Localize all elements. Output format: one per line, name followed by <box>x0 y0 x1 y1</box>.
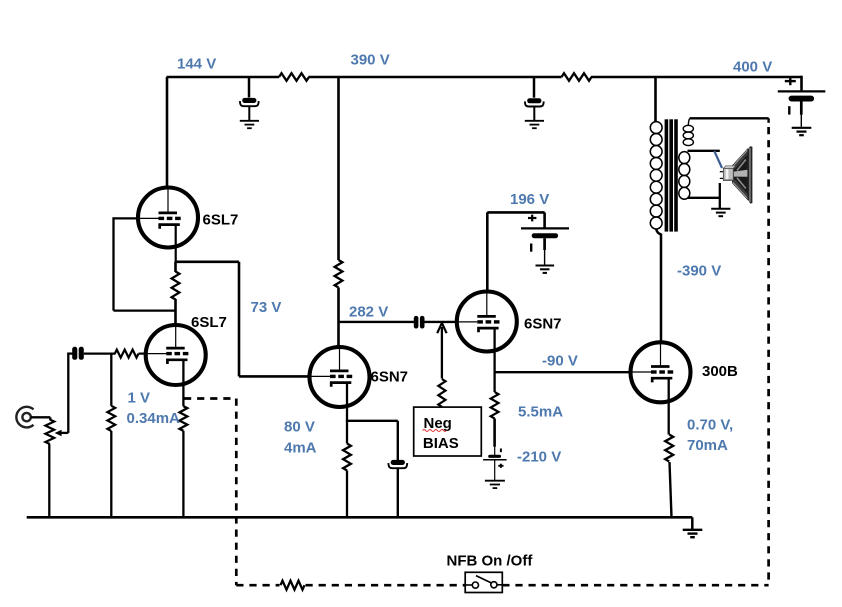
wire NFB takeoff to dashed loop <box>690 118 769 123</box>
svg-text:73 V: 73 V <box>251 299 282 316</box>
wire R6 leads <box>346 421 348 518</box>
wire V3 cathode down <box>346 383 348 421</box>
svg-text:390 V: 390 V <box>351 52 390 69</box>
resistor R10 300B cathode <box>665 435 673 462</box>
svg-text:5.5mA: 5.5mA <box>518 404 563 421</box>
wire V4 cathode down <box>493 328 495 373</box>
wire V2 cathode down <box>182 360 184 406</box>
wire R-plate to V3 top <box>337 288 340 348</box>
wire V1 cathode down <box>175 225 177 262</box>
svg-text:1 V: 1 V <box>128 390 151 407</box>
capacitor C1 <box>240 98 259 106</box>
OPT core laminations <box>665 119 678 231</box>
svg-text:-90 V: -90 V <box>542 353 578 370</box>
wire C3 right lead to junction <box>84 352 116 354</box>
wire secondary bottom lead <box>688 197 720 199</box>
battery B2 196V plus sign <box>528 215 536 222</box>
ground main <box>683 530 703 537</box>
wire top B+ rail segment 1 (144V) <box>167 76 280 79</box>
battery B3 -210V <box>483 447 507 480</box>
svg-text:4mA: 4mA <box>284 440 317 457</box>
wire cathode junction to bypass cap <box>346 421 398 460</box>
wire R5 to ground rail <box>110 431 112 517</box>
wire C5 to V4 grid <box>424 321 457 323</box>
OPT secondary upper (NFB) winding <box>683 118 693 145</box>
OPT secondary lower winding <box>679 152 690 200</box>
wire secondary top lead <box>688 150 720 152</box>
resistor rail R2 <box>562 73 592 81</box>
capacitor C2 <box>525 98 544 106</box>
svg-text:6SN7: 6SN7 <box>524 316 562 333</box>
wire C2 top lead <box>533 77 536 98</box>
ground below C1 <box>240 121 259 128</box>
wire 73V node down and right to V3 grid <box>239 262 310 377</box>
tube V5 300B <box>631 342 691 402</box>
resistor R8 V4 cathode <box>491 392 499 419</box>
wire wiper from coupling cap down <box>67 354 69 433</box>
ground below battery B2 <box>536 266 555 273</box>
resistor R4 grid stopper <box>115 350 139 358</box>
svg-text:80 V: 80 V <box>284 419 315 436</box>
wire speaker return to ground <box>719 183 721 208</box>
svg-text:70mA: 70mA <box>687 437 728 454</box>
wire C2 bottom lead <box>533 107 535 121</box>
svg-text:Neg: Neg <box>424 415 452 432</box>
wire rail end drop <box>691 517 694 529</box>
wire rail down to R-plate <box>337 77 340 260</box>
wire OPT primary bottom to 300B plate <box>656 229 661 343</box>
ground below battery B1 <box>792 128 812 135</box>
ground below speaker <box>711 209 730 216</box>
potentiometer (volume) <box>45 420 54 445</box>
wire cathode junction to 73V drop <box>176 260 240 263</box>
ground below C2 <box>525 121 544 128</box>
wire C3 left lead <box>67 352 72 354</box>
svg-text:-390 V: -390 V <box>677 263 721 280</box>
resistor R3 V1 cathode to V2 plate <box>172 272 180 300</box>
OPT primary winding <box>650 122 662 229</box>
wire 144V rail down to V1 plate <box>166 77 169 187</box>
bias injection arrow <box>437 323 446 379</box>
tube V4 6SN7 second <box>457 292 517 352</box>
wire R10 to ground rail <box>670 462 672 517</box>
battery B3 plus sign <box>498 464 503 468</box>
battery B1 400V <box>778 91 826 126</box>
spellcheck squiggle under Neg <box>423 430 447 432</box>
resistor R-bias feed <box>438 379 445 407</box>
dashed NFB right vertical <box>767 127 770 585</box>
svg-text:-210 V: -210 V <box>517 449 561 466</box>
resistor R7 V2 cathode <box>180 406 188 431</box>
wire jack to potentiometer <box>31 417 51 420</box>
wire R7 to ground rail <box>182 431 184 518</box>
resistor R-plate 6SN7 <box>335 260 343 288</box>
wire rail down to OPT primary <box>654 77 657 122</box>
svg-text:6SN7: 6SN7 <box>371 369 409 386</box>
wire V5 cathode down <box>668 378 670 434</box>
tube V3 6SN7 first <box>310 347 370 407</box>
wire R3 leads <box>174 262 177 326</box>
battery B1 400V plus sign <box>785 77 796 85</box>
wiper arrow <box>55 430 69 437</box>
capacitor C4 cathode bypass <box>388 460 407 468</box>
Neg BIAS box <box>414 407 482 456</box>
blue wire to speaker plus terminal <box>714 151 722 168</box>
svg-text:196 V: 196 V <box>510 191 549 208</box>
svg-text:0.34mA: 0.34mA <box>127 410 181 427</box>
wire pot bottom to ground rail <box>48 444 50 517</box>
wire drop to battery B1 <box>800 76 803 91</box>
wire R8 leads <box>493 372 495 447</box>
svg-text:400 V: 400 V <box>733 59 772 76</box>
speaker terminals <box>720 172 725 179</box>
dashed NFB bottom right <box>502 584 768 587</box>
wire C1 top lead <box>248 77 251 98</box>
dashed NFB bottom middle <box>306 584 466 587</box>
svg-text:NFB On /Off: NFB On /Off <box>447 553 534 570</box>
resistor R6 V3 cathode <box>343 444 351 471</box>
svg-text:144 V: 144 V <box>177 56 216 73</box>
tube V2 6SL7 lower <box>146 325 206 385</box>
ground below battery B3 <box>485 481 505 488</box>
dashed NFB left vertical <box>235 399 238 586</box>
svg-text:0.70 V,: 0.70 V, <box>687 417 733 434</box>
wire V4 plate up to 196V battery <box>487 212 544 292</box>
wire top B+ rail segment 2 (390V) <box>309 76 562 79</box>
wire grid leak down <box>110 354 112 406</box>
wire C4 to ground rail <box>397 468 399 517</box>
capacitor C3 input coupling <box>72 347 84 360</box>
svg-text:6SL7: 6SL7 <box>191 314 227 331</box>
switch NFB on/off <box>465 572 502 592</box>
svg-text:BIAS: BIAS <box>423 435 459 452</box>
dashed NFB tap from V2 cathode <box>184 397 236 400</box>
wire main ground rail <box>27 516 693 519</box>
wire C1 bottom lead <box>248 106 250 120</box>
capacitor C5 coupling <box>414 316 425 329</box>
wire V1 grid to V2 plate (left loop) <box>114 217 176 310</box>
battery B2 196V <box>521 228 569 264</box>
resistor R9 NFB <box>281 581 305 590</box>
wire 282V node to coupling cap <box>339 321 415 323</box>
dashed NFB bottom left <box>236 584 279 587</box>
input jack <box>16 407 33 428</box>
svg-text:6SL7: 6SL7 <box>203 212 239 229</box>
resistor rail R1 <box>279 73 309 81</box>
speaker <box>723 146 752 203</box>
wire top B+ rail segment 3 (400V) <box>591 76 802 79</box>
tube V1 6SL7 upper <box>138 188 198 248</box>
svg-text:300B: 300B <box>702 363 738 380</box>
resistor R5 grid leak <box>107 406 115 431</box>
svg-text:282 V: 282 V <box>349 304 388 321</box>
wire V2 grid stub <box>139 353 147 355</box>
wire -90V node to 300B grid <box>494 371 631 373</box>
